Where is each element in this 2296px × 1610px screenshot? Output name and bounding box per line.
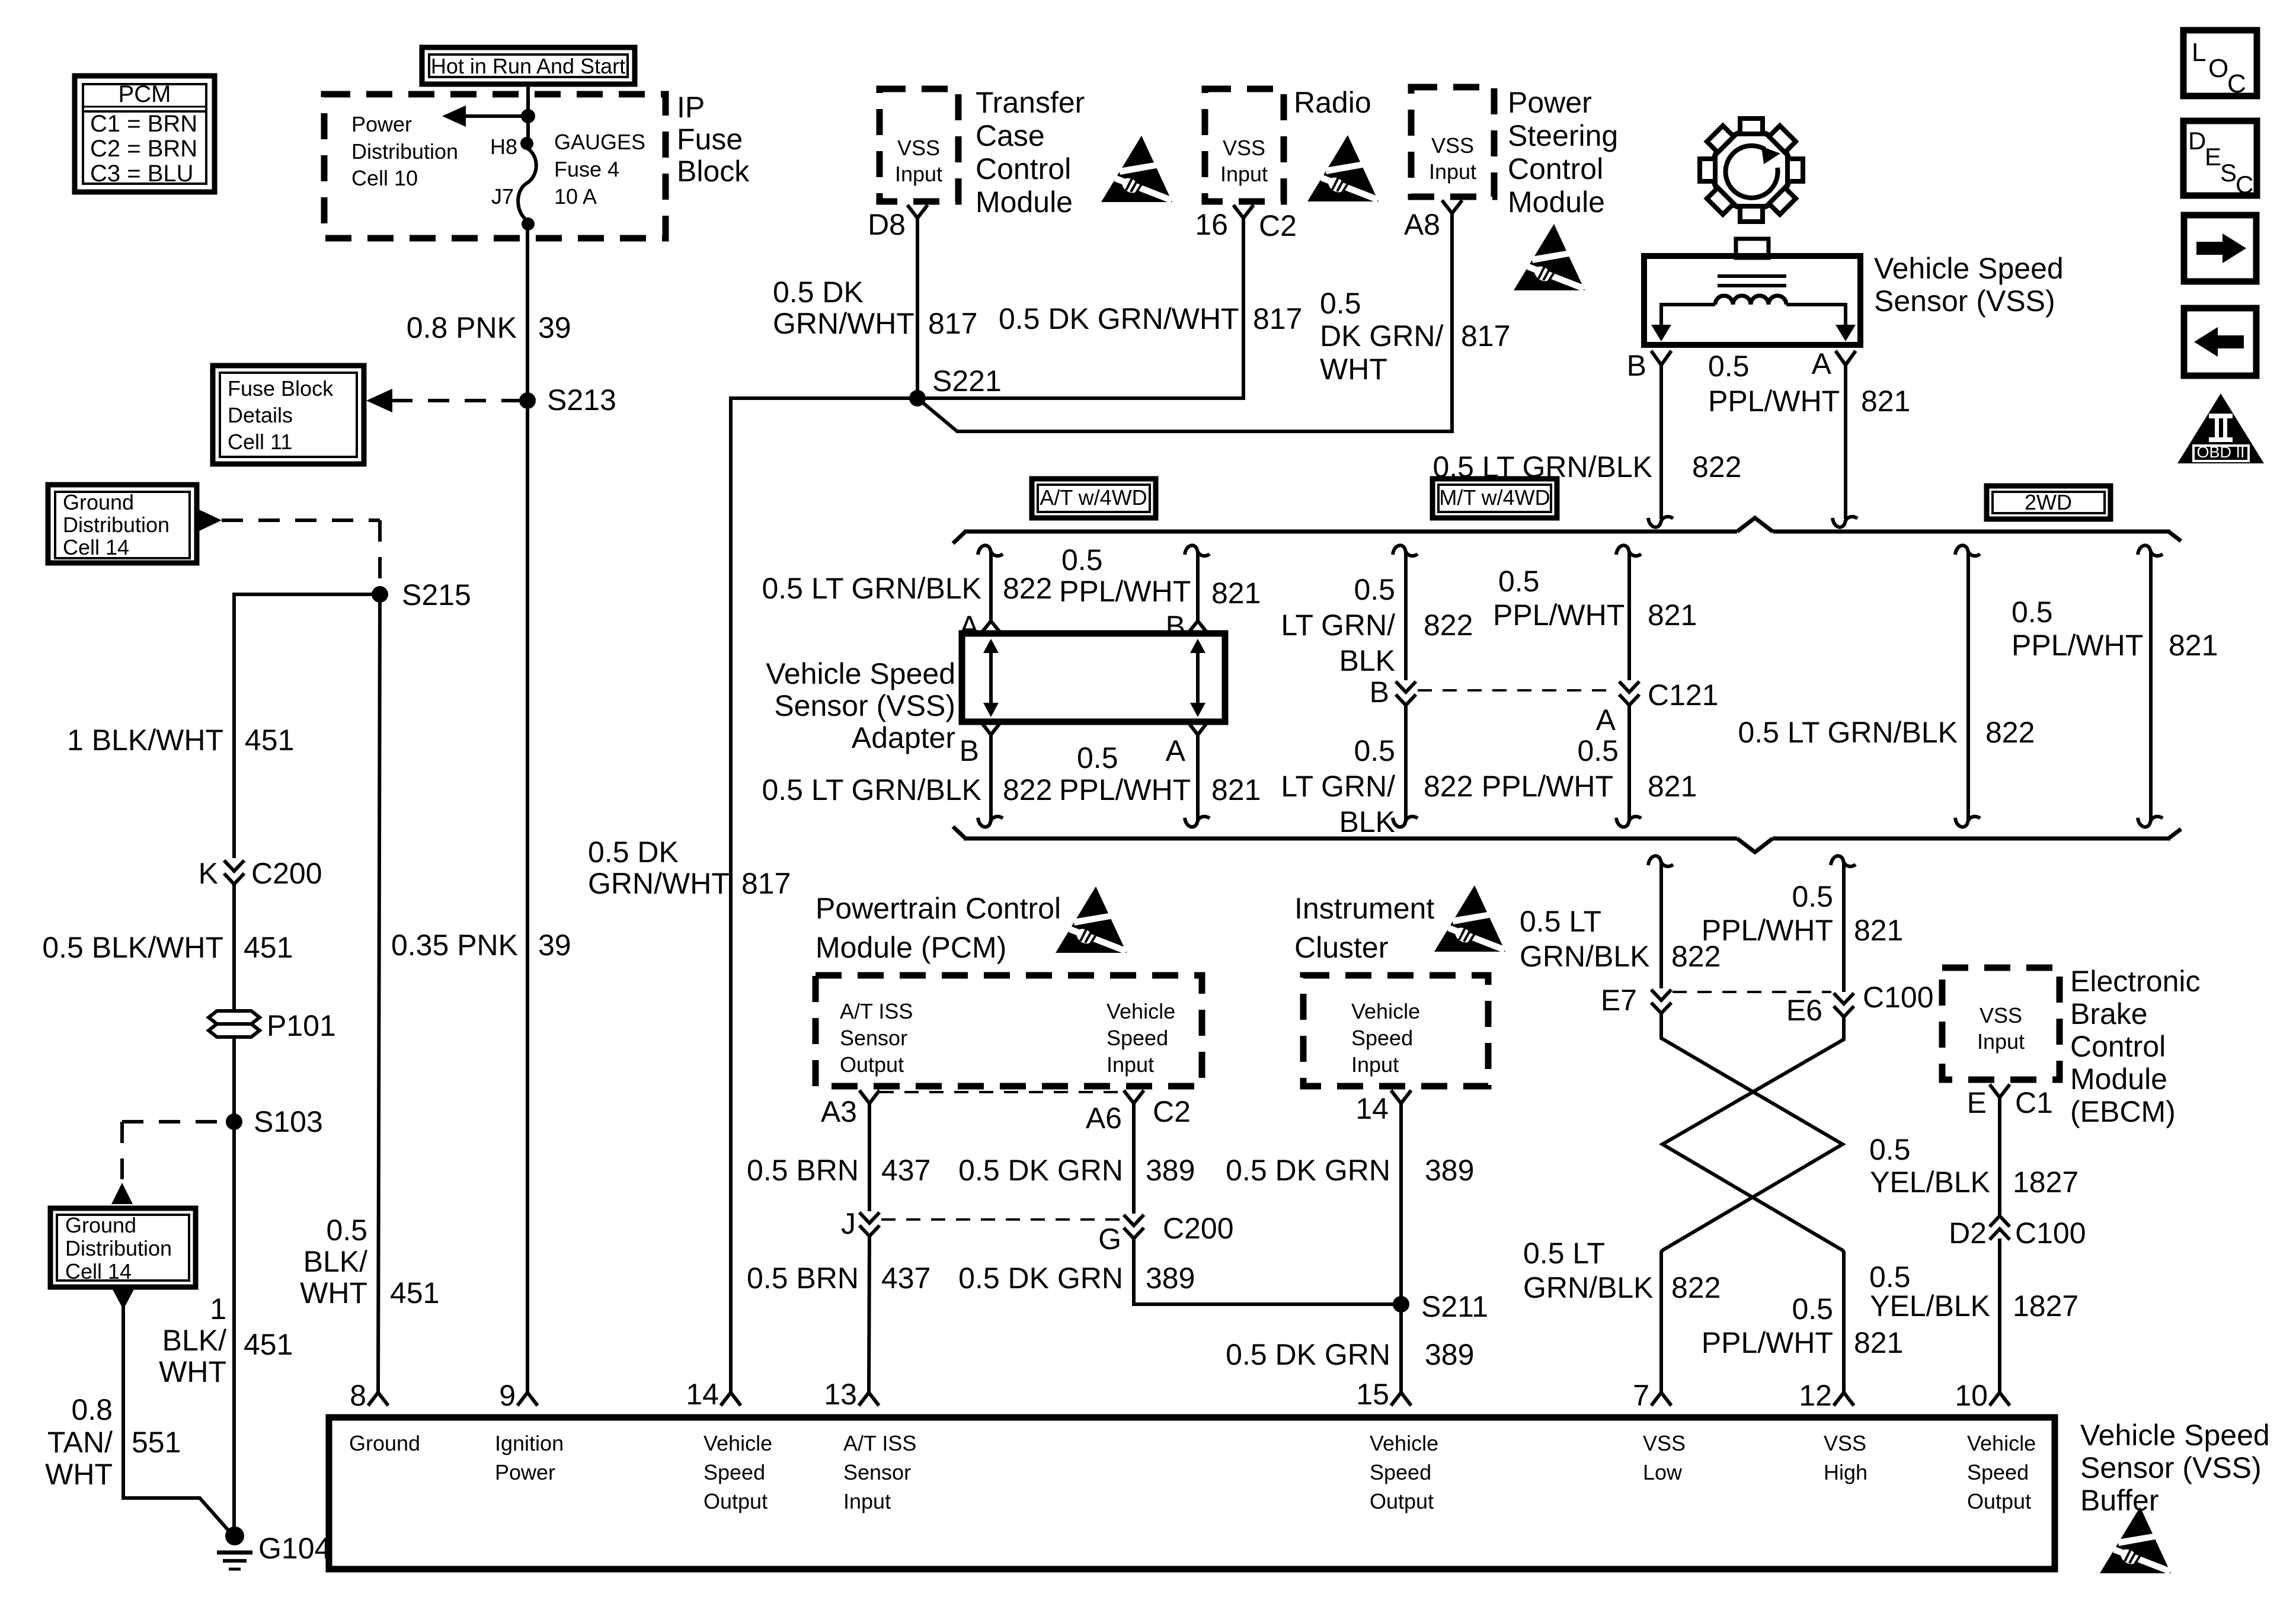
svg-text:0.5 LT GRN/BLK: 0.5 LT GRN/BLK [1738, 716, 1958, 749]
svg-text:BLK/: BLK/ [303, 1245, 368, 1278]
svg-text:0.5 LT: 0.5 LT [1520, 905, 1601, 938]
svg-text:7: 7 [1633, 1379, 1649, 1412]
wire: 0.5 PPL/WHT 821 2WD column [2138, 545, 2163, 556]
svg-text:Speed: Speed [1370, 1460, 1431, 1484]
wire: crossover E7 side [1661, 1013, 1843, 1393]
adapter pin A (upper left) [981, 621, 1001, 633]
svg-text:Ignition: Ignition [495, 1431, 564, 1455]
connector C100 pin E6 (inline double chevron) [1786, 981, 1934, 1027]
svg-text:D2: D2 [1949, 1217, 1987, 1250]
wire: S215 branch left to ground chain [234, 594, 380, 858]
svg-text:Distribution: Distribution [351, 139, 458, 164]
svg-text:13: 13 [824, 1378, 857, 1411]
svg-text:PPL/WHT: PPL/WHT [1702, 914, 1833, 947]
svg-text:VSS: VSS [1431, 133, 1474, 158]
svg-text:2WD: 2WD [2025, 490, 2072, 514]
svg-text:BLK: BLK [1339, 644, 1395, 677]
svg-text:Speed: Speed [703, 1460, 765, 1484]
svg-text:Cluster: Cluster [1294, 931, 1388, 964]
svg-text:451: 451 [245, 724, 294, 757]
svg-text:Output: Output [840, 1052, 904, 1077]
svg-text:E: E [2205, 143, 2221, 171]
svg-text:0.5: 0.5 [1498, 565, 1540, 598]
svg-text:Vehicle: Vehicle [1351, 999, 1420, 1023]
svg-text:C2 = BRN: C2 = BRN [90, 136, 197, 162]
svg-text:389: 389 [1146, 1154, 1195, 1187]
connector pin E C1 of EBCM [1990, 1084, 2010, 1097]
svg-text:821: 821 [1648, 770, 1697, 803]
svg-text:15: 15 [1356, 1378, 1389, 1411]
svg-text:C200: C200 [251, 857, 322, 890]
svg-text:Control: Control [1508, 152, 1603, 185]
svg-text:0.5: 0.5 [1354, 573, 1395, 606]
svg-text:C100: C100 [1863, 981, 1934, 1014]
wire: power distribution branch with arrow [452, 114, 528, 118]
Instrument Cluster dashed box [1303, 975, 1488, 1086]
svg-text:821: 821 [1211, 577, 1261, 610]
svg-text:39: 39 [538, 311, 571, 344]
svg-text:Sensor: Sensor [843, 1460, 911, 1484]
svg-text:S: S [2220, 159, 2237, 187]
svg-text:VSS: VSS [1980, 1003, 2022, 1028]
svg-text:H8: H8 [490, 135, 517, 159]
svg-text:0.5 DK GRN: 0.5 DK GRN [958, 1154, 1123, 1187]
svg-text:VSS: VSS [1824, 1431, 1866, 1455]
svg-text:Ground: Ground [63, 490, 134, 514]
dashed connector line C200 J to G [881, 1218, 1123, 1221]
wire: 0.5 DK GRN 389 from cluster 14 to buffer pin 15 [1399, 1103, 1403, 1393]
svg-text:Cell 11: Cell 11 [228, 430, 292, 454]
svg-text:39: 39 [538, 929, 571, 962]
svg-text:D8: D8 [868, 208, 906, 241]
svg-text:A: A [1812, 347, 1832, 380]
svg-text:PPL/WHT: PPL/WHT [1702, 1326, 1833, 1359]
buffer pin 12 [1834, 1393, 1854, 1406]
svg-text:LT GRN/: LT GRN/ [1281, 609, 1395, 642]
svg-text:(EBCM): (EBCM) [2070, 1095, 2176, 1128]
svg-text:Ground: Ground [349, 1431, 420, 1455]
svg-text:L: L [2192, 38, 2206, 67]
svg-text:WHT: WHT [300, 1276, 367, 1310]
svg-text:B: B [960, 734, 979, 767]
buffer pin 7 [1651, 1393, 1671, 1406]
ESD symbol: instrument cluster [1434, 885, 1506, 953]
option tag M/T w/4WD [1432, 479, 1557, 518]
adapter internal path right (double arrow) [1190, 639, 1205, 717]
svg-text:C3 = BLU: C3 = BLU [90, 161, 194, 187]
svg-text:Radio: Radio [1294, 86, 1371, 119]
svg-text:PPL/WHT: PPL/WHT [1708, 385, 1840, 418]
svg-text:PPL/WHT: PPL/WHT [2012, 629, 2143, 662]
svg-text:K: K [199, 857, 218, 890]
svg-text:Fuse: Fuse [677, 123, 743, 156]
splice S211 [1393, 1296, 1409, 1313]
svg-text:Cell 10: Cell 10 [351, 166, 418, 190]
svg-text:Module (PCM): Module (PCM) [816, 931, 1006, 964]
svg-text:S213: S213 [547, 383, 616, 417]
svg-text:Instrument: Instrument [1294, 892, 1434, 925]
svg-text:Speed: Speed [1351, 1026, 1413, 1050]
splice S221 [909, 390, 926, 406]
svg-text:C2: C2 [1153, 1095, 1191, 1128]
wire: 0.5 PPL/WHT 821 from VSS A to harness bus [1844, 365, 1847, 519]
svg-text:BLK/: BLK/ [162, 1324, 227, 1357]
LOC legend box [2183, 30, 2257, 98]
svg-text:817: 817 [741, 867, 791, 900]
wire: crossover E6 side [1662, 1017, 1844, 1393]
svg-text:8: 8 [350, 1379, 366, 1412]
svg-text:WHT: WHT [159, 1355, 226, 1388]
svg-text:437: 437 [881, 1262, 930, 1295]
svg-text:0.5 BRN: 0.5 BRN [747, 1154, 859, 1187]
wire: 0.5 PPL/WHT 821 M/T upper segment [1616, 545, 1641, 556]
svg-text:D: D [2188, 127, 2206, 155]
wire: 0.5 PPL/WHT 821 bus to C100 E6 [1831, 856, 1856, 866]
svg-text:Input: Input [895, 162, 942, 186]
option tag A/T w/4WD [1032, 479, 1156, 518]
svg-text:B: B [1627, 349, 1646, 382]
adapter pin A (lower right) [1188, 722, 1208, 735]
svg-text:0.5: 0.5 [1061, 543, 1103, 577]
svg-text:Module: Module [2070, 1062, 2167, 1096]
dashed connector line C121 [1418, 689, 1617, 692]
ESD symbol: power steering module [1514, 224, 1585, 292]
adapter pin B (lower left) [981, 722, 1001, 735]
svg-text:0.5: 0.5 [1077, 741, 1118, 774]
svg-text:GRN/WHT: GRN/WHT [773, 307, 914, 340]
svg-text:E6: E6 [1786, 994, 1822, 1027]
fuse GAUGES Fuse 4 10A (S-curve element) [518, 148, 536, 220]
svg-text:Transfer: Transfer [976, 86, 1085, 119]
node: Hot in Run And Start label [422, 47, 635, 84]
wire: 0.5 BLK/WHT 451 from C200 to P101 [232, 882, 236, 1011]
wire: 0.5 LT GRN/BLK 822 from VSS B to harness bus [1659, 365, 1663, 519]
ESD symbol: VSS buffer [2100, 1507, 2172, 1574]
svg-text:821: 821 [1211, 773, 1261, 806]
ESD symbol: PCM [1056, 886, 1127, 954]
svg-text:389: 389 [1425, 1338, 1474, 1371]
wire: 0.5 DK GRN 389 from A6 to C200 G [1132, 1103, 1136, 1214]
svg-text:A8: A8 [1404, 208, 1440, 241]
svg-text:Vehicle: Vehicle [1107, 999, 1175, 1023]
wire: 0.5 PPL/WHT 821 adapter A to bus lower [1196, 735, 1200, 820]
svg-text:551: 551 [132, 1426, 181, 1459]
svg-text:1827: 1827 [2013, 1289, 2078, 1323]
option tag 2WD [1987, 486, 2110, 519]
svg-text:Details: Details [228, 403, 293, 427]
wire: 0.35 PNK 39 from S213 down to buffer pin 9 [526, 401, 529, 1393]
vehicle speed sensor VSS body [1644, 239, 1860, 345]
wire: 0.5 YEL/BLK 1827 from EBCM E to C100 D2 [1998, 1097, 2001, 1215]
svg-text:J7: J7 [491, 184, 514, 209]
svg-text:Sensor (VSS): Sensor (VSS) [1874, 284, 2055, 318]
svg-text:PCM: PCM [119, 81, 171, 107]
svg-text:Adapter: Adapter [852, 721, 955, 754]
wire: 0.5 LT GRN/BLK 822 M/T upper segment [1393, 545, 1418, 556]
svg-text:Input: Input [1429, 159, 1476, 184]
svg-text:A: A [1166, 734, 1186, 767]
Ground Distribution Cell 14 reference box (lower) [50, 1208, 196, 1287]
Ground Distribution Cell 14 reference box (upper) [48, 485, 197, 563]
OBD II symbol [2177, 393, 2264, 463]
svg-text:C200: C200 [1163, 1212, 1234, 1245]
svg-text:1 BLK/WHT: 1 BLK/WHT [67, 724, 223, 757]
grommet P101 [209, 1009, 336, 1042]
node H8 terminal dot [520, 137, 533, 150]
harness bus upper [953, 518, 2181, 543]
svg-text:Sensor (VSS): Sensor (VSS) [2080, 1451, 2262, 1484]
svg-text:437: 437 [881, 1154, 930, 1187]
wire: 0.5 BRN 437 from A3 to C200 J [868, 1103, 871, 1211]
DESC legend box [2183, 121, 2257, 199]
svg-text:Output: Output [1967, 1489, 2031, 1513]
svg-text:0.5 BRN: 0.5 BRN [747, 1262, 859, 1295]
svg-text:0.5 DK: 0.5 DK [773, 276, 864, 309]
wire: 0.5 PPL/WHT 821 bus to adapter pin B [1185, 545, 1210, 556]
svg-text:Power: Power [495, 1460, 555, 1484]
svg-text:Control: Control [2070, 1030, 2166, 1063]
svg-text:14: 14 [686, 1378, 719, 1411]
svg-text:Hot in Run And Start: Hot in Run And Start [431, 54, 625, 78]
svg-text:Control: Control [976, 152, 1071, 185]
svg-text:G: G [1098, 1222, 1121, 1256]
svg-text:A/T ISS: A/T ISS [843, 1431, 916, 1455]
svg-text:Cell 14: Cell 14 [65, 1259, 132, 1283]
wire: 0.5 LT GRN/BLK 822 adapter B to bus lower [989, 735, 993, 820]
wire: 0.5 YEL/BLK 1827 from D2 to buffer pin 10 [1998, 1238, 2001, 1393]
VSS buffer box [329, 1417, 2055, 1569]
svg-text:C: C [2236, 171, 2253, 199]
connector pin 16 C2 of radio [1233, 205, 1253, 218]
svg-text:VSS: VSS [1643, 1431, 1686, 1455]
svg-text:C1: C1 [2015, 1086, 2053, 1119]
svg-text:817: 817 [928, 307, 977, 340]
svg-text:Sensor (VSS): Sensor (VSS) [774, 689, 955, 722]
svg-text:IP: IP [677, 91, 705, 124]
svg-text:Input: Input [1220, 162, 1268, 186]
splice S215 [372, 586, 388, 603]
svg-text:0.35 PNK: 0.35 PNK [391, 929, 518, 962]
svg-text:Low: Low [1643, 1460, 1683, 1484]
svg-text:0.5 DK GRN/WHT: 0.5 DK GRN/WHT [999, 302, 1239, 335]
svg-text:A: A [1596, 703, 1616, 737]
svg-text:0.5: 0.5 [326, 1214, 367, 1247]
connector C100 pin D2 (inline double chevron up) [1949, 1216, 2086, 1250]
Electronic Brake Control Module (EBCM) dashed box [1942, 968, 2060, 1080]
svg-text:Steering: Steering [1508, 119, 1618, 152]
svg-text:0.5: 0.5 [1354, 734, 1395, 767]
svg-text:E7: E7 [1601, 984, 1637, 1017]
adapter internal path left (double arrow) [983, 639, 999, 717]
svg-text:Speed: Speed [1967, 1460, 2029, 1484]
wire: 0.5 DK GRN 389 from G to S211 [1134, 1236, 1401, 1304]
svg-text:821: 821 [1861, 385, 1910, 418]
wire: 0.8 TAN/WHT 551 from Ground Distribution down to G104 [113, 1289, 134, 1310]
svg-text:GRN/BLK: GRN/BLK [1520, 940, 1650, 973]
svg-text:VSS: VSS [1223, 136, 1265, 160]
ground G104 [217, 1526, 331, 1569]
svg-text:S221: S221 [932, 364, 1002, 398]
adapter pin B (upper right) [1188, 621, 1208, 633]
svg-text:S103: S103 [254, 1105, 323, 1138]
node J7 terminal dot [522, 217, 535, 231]
svg-text:Module: Module [1508, 185, 1605, 219]
svg-text:B: B [1166, 610, 1185, 643]
Power Steering Control Module dashed box [1411, 87, 1494, 197]
svg-text:C1 = BRN: C1 = BRN [90, 111, 197, 137]
svg-text:C100: C100 [2015, 1217, 2086, 1250]
connector C200 pin J (inline double chevron) [841, 1207, 880, 1240]
svg-text:0.5: 0.5 [2012, 596, 2053, 629]
dashed connector line C100 E7 to E6 [1673, 991, 1831, 993]
svg-text:PPL/WHT: PPL/WHT [1059, 575, 1191, 608]
svg-text:Output: Output [1370, 1489, 1434, 1513]
svg-text:P101: P101 [267, 1009, 336, 1042]
buffer pin 15 [1391, 1393, 1411, 1406]
svg-text:451: 451 [244, 1328, 293, 1361]
harness bus lower [953, 827, 2181, 852]
connector pin B of VSS [1651, 351, 1671, 365]
svg-text:12: 12 [1799, 1379, 1832, 1412]
svg-text:Power: Power [351, 112, 412, 136]
svg-text:Sensor: Sensor [840, 1026, 907, 1050]
svg-text:Vehicle: Vehicle [703, 1431, 772, 1455]
svg-text:0.8: 0.8 [71, 1393, 113, 1426]
wire: 0.5 DK GRN/WHT 817 from radio 16 down and to S221 [917, 218, 1243, 398]
svg-text:TAN/: TAN/ [47, 1426, 113, 1459]
svg-text:Module: Module [976, 185, 1073, 219]
svg-text:822: 822 [1692, 450, 1741, 484]
svg-text:BLK: BLK [1339, 805, 1395, 838]
ESD symbol: transfer case module [1101, 136, 1173, 203]
wire: 451 from P101 to S103 [232, 1037, 236, 1534]
svg-text:Distribution: Distribution [63, 513, 170, 537]
svg-text:Input: Input [1977, 1029, 2025, 1054]
svg-text:GAUGES: GAUGES [554, 130, 645, 154]
svg-text:Vehicle Speed: Vehicle Speed [2080, 1419, 2270, 1452]
connector pin 14 of instrument cluster [1391, 1090, 1411, 1103]
svg-text:0.5 LT GRN/BLK: 0.5 LT GRN/BLK [762, 773, 981, 806]
svg-text:Distribution: Distribution [65, 1236, 172, 1260]
svg-text:A6: A6 [1086, 1102, 1122, 1135]
svg-text:822: 822 [1003, 572, 1052, 605]
wire: Hot in Run feed into fuse block [526, 84, 530, 137]
svg-text:10: 10 [1955, 1379, 1988, 1412]
wire: 0.5 PPL/WHT 821 M/T lower segment [1627, 703, 1631, 820]
svg-text:Vehicle: Vehicle [1370, 1431, 1438, 1455]
svg-text:10 A: 10 A [554, 184, 597, 209]
PCM connector legend box [75, 76, 215, 192]
connector pin A6 C2 of PCM [1124, 1090, 1144, 1103]
svg-text:C: C [2227, 69, 2246, 98]
connector C121 pin B (inline double chevron) [1370, 676, 1416, 709]
svg-text:1: 1 [210, 1292, 226, 1326]
svg-text:OBD II: OBD II [2196, 443, 2244, 461]
wire: 0.5 DK GRN/WHT 817 from A8 down to S221 branch [917, 213, 1452, 431]
svg-text:Brake: Brake [2070, 997, 2148, 1030]
svg-text:GRN/BLK: GRN/BLK [1523, 1271, 1654, 1304]
svg-text:0.5: 0.5 [1708, 350, 1750, 383]
svg-text:16: 16 [1195, 208, 1228, 241]
svg-text:0.5 DK GRN: 0.5 DK GRN [1226, 1338, 1390, 1371]
svg-text:GRN/WHT: GRN/WHT [588, 867, 730, 900]
svg-text:822: 822 [1424, 770, 1473, 803]
svg-text:822: 822 [1003, 773, 1052, 806]
wire: 0.5 LT GRN/BLK 822 M/T lower segment [1404, 703, 1408, 820]
svg-text:389: 389 [1425, 1154, 1474, 1187]
svg-text:O: O [2208, 54, 2228, 83]
wire: 0.8 PNK 39 from fuse J7 down to S213 [526, 224, 529, 401]
svg-text:PPL/WHT: PPL/WHT [1493, 598, 1625, 632]
buffer pin 14 [721, 1393, 741, 1406]
svg-text:Block: Block [677, 155, 750, 188]
buffer pin 9 [517, 1393, 538, 1406]
svg-text:E: E [1967, 1086, 1987, 1119]
connector pin A8 of power steering module [1442, 200, 1462, 213]
svg-text:WHT: WHT [1320, 353, 1387, 386]
svg-text:PPL/WHT: PPL/WHT [1059, 773, 1191, 806]
svg-text:817: 817 [1253, 302, 1302, 335]
svg-text:0.5: 0.5 [1577, 734, 1619, 767]
svg-text:M/T w/4WD: M/T w/4WD [1439, 485, 1550, 510]
svg-text:YEL/BLK: YEL/BLK [1870, 1289, 1990, 1323]
dashed reference wire S103 to Ground Distribution (lower) [122, 1120, 225, 1124]
svg-text:PPL/WHT: PPL/WHT [1482, 770, 1613, 803]
svg-text:Input: Input [1107, 1052, 1154, 1077]
svg-text:1827: 1827 [2013, 1166, 2078, 1199]
svg-text:Fuse 4: Fuse 4 [554, 157, 619, 181]
svg-text:S211: S211 [1421, 1290, 1488, 1323]
splice S103 [226, 1113, 242, 1130]
svg-text:0.5: 0.5 [1792, 1292, 1833, 1326]
svg-text:Fuse Block: Fuse Block [228, 376, 334, 401]
forward arrow legend box [2184, 215, 2256, 281]
svg-text:C2: C2 [1259, 209, 1297, 242]
svg-text:0.5 LT GRN/BLK: 0.5 LT GRN/BLK [762, 572, 981, 605]
svg-text:Case: Case [976, 119, 1045, 152]
svg-text:817: 817 [1461, 319, 1510, 353]
svg-text:Ground: Ground [65, 1213, 136, 1237]
Radio dashed box [1205, 89, 1284, 201]
svg-text:S215: S215 [402, 578, 471, 612]
wire: 0.5 DK GRN/WHT 817 from D8 to S221 [916, 218, 919, 398]
svg-text:Output: Output [703, 1489, 768, 1513]
svg-text:LT GRN/: LT GRN/ [1281, 770, 1395, 803]
Vehicle Speed Sensor (VSS) Adapter box [962, 633, 1225, 722]
svg-text:C121: C121 [1648, 678, 1719, 712]
svg-text:B: B [1370, 676, 1389, 709]
svg-text:High: High [1824, 1460, 1868, 1484]
PCM dashed box [816, 975, 1202, 1086]
svg-text:Input: Input [843, 1489, 891, 1513]
wire: 0.5 BRN 437 from J to buffer pin 13 [869, 1234, 869, 1393]
svg-text:451: 451 [244, 931, 293, 964]
wire: 0.5 BLK/WHT 451 from S215 down to buffer pin 8 [378, 594, 380, 1393]
svg-text:0.5 DK GRN: 0.5 DK GRN [1226, 1154, 1390, 1187]
svg-text:451: 451 [390, 1276, 439, 1310]
svg-text:DK GRN/: DK GRN/ [1320, 319, 1443, 353]
svg-text:0.8 PNK: 0.8 PNK [407, 311, 517, 344]
dashed connector line PCM C2 pins [880, 1091, 1123, 1093]
svg-text:YEL/BLK: YEL/BLK [1870, 1166, 1990, 1199]
svg-text:0.5: 0.5 [1869, 1133, 1911, 1166]
svg-text:A/T w/4WD: A/T w/4WD [1040, 485, 1147, 510]
Transfer Case Control Module dashed box [880, 89, 958, 201]
svg-text:822: 822 [1985, 716, 2035, 749]
svg-text:Speed: Speed [1107, 1026, 1168, 1050]
svg-text:Vehicle Speed: Vehicle Speed [766, 657, 955, 690]
svg-text:821: 821 [1648, 598, 1697, 632]
